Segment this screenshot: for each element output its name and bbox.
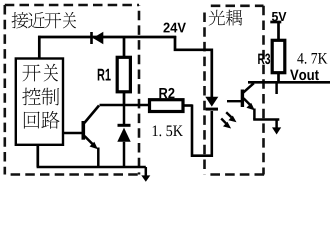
block: switch control circuit: [16, 59, 63, 145]
ground arrow: [141, 167, 150, 182]
label 24V: [163, 23, 185, 33]
wire: 24V rail jog to LED anode: [175, 36, 212, 97]
label 回路 (line 3): [24, 111, 60, 129]
label R1: [98, 69, 111, 81]
wire: collector node to R2: [100, 104, 150, 107]
label R3: [258, 54, 270, 65]
label 5V: [272, 12, 287, 21]
wire: Vout rail: [248, 81, 330, 84]
transistor Q1 (NPN): [63, 106, 99, 168]
dashed box: optocoupler enclosure: [205, 6, 265, 175]
wire: control block bottom to ground rail: [36, 144, 39, 167]
resistor R3: [272, 22, 285, 82]
wire: 24V top rail: [38, 36, 176, 39]
stub below Vout node: [275, 83, 278, 94]
wire: R2 to LED cathode (U-shaped): [192, 105, 212, 156]
label R2: [159, 88, 174, 98]
LED of optocoupler (points down): [205, 97, 218, 111]
label 1.5K: [153, 125, 183, 136]
label 光耦 (optocoupler): [209, 10, 243, 26]
wire: Q2 emitter to ground arrow: [253, 118, 279, 121]
dashed box: proximity switch enclosure: [5, 5, 139, 175]
label 开关 (line 1): [22, 64, 58, 82]
light emission arrows: [221, 112, 236, 128]
label 接近开关 (proximity switch): [12, 12, 77, 28]
label 4.7K: [297, 53, 327, 64]
diode D1 (points left): [90, 32, 103, 45]
wire: 24V rail down to control block: [38, 36, 41, 59]
wire: ground rail: [37, 166, 146, 169]
diode D2 (points up): [117, 105, 130, 167]
label Vout: [290, 70, 319, 80]
5V supply bar: [270, 21, 281, 24]
label 控制 (line 2): [22, 88, 59, 106]
resistor R2: [150, 100, 193, 112]
resistor R1: [117, 37, 130, 106]
ground arrow (emitter): [272, 120, 281, 135]
phototransistor Q2: [227, 83, 255, 119]
